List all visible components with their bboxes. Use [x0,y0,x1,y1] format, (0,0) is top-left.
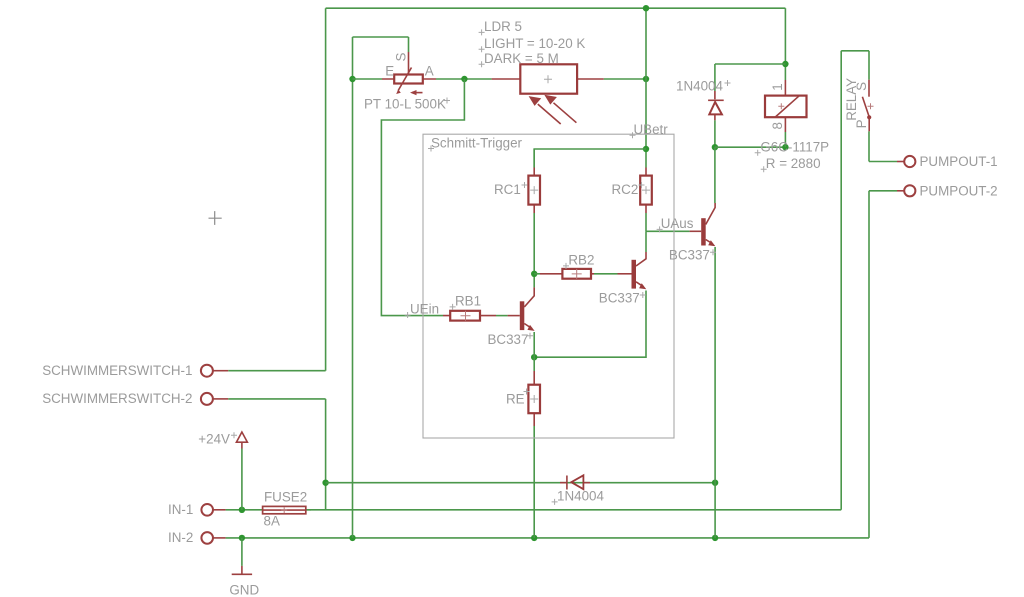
node junction line1-right [712,480,718,486]
wire coil pin8 stub [784,132,786,147]
svg-text:RE: RE [506,392,525,407]
svg-text:RB1: RB1 [455,294,481,309]
wire column2 vertical [645,8,647,167]
wire relay top drop [784,8,786,80]
wire diode bottom stub [714,120,716,147]
wire relay-branch top [841,50,869,52]
relay coil K1 G6C-1117P [755,80,829,172]
wire SCHWIMMERSWITCH-1 horizontal [228,370,325,372]
wire relay switch S feed [868,51,870,80]
wire RE bottom stub [533,426,535,538]
resistor RB2 [540,253,594,279]
wire Q2 collector vertical [645,231,647,252]
wire Q2 emitter down [534,291,646,358]
terminal IN-2 [168,530,226,545]
ground GND [229,566,259,597]
frame Schmitt-Trigger box [423,134,674,438]
relay switch contacts [844,78,874,131]
resistor RB1 [443,294,496,321]
potentiometer R7 PT 10-L 500K [364,52,450,112]
svg-text:FUSE2: FUSE2 [264,490,307,505]
wire GND stub [241,538,243,566]
wire RC2 bottom vertical [645,213,647,231]
node junction diode-top [782,61,788,67]
node junction IN1-24V [239,507,245,513]
svg-text:S: S [394,53,409,62]
svg-text:E: E [385,64,394,79]
diode D2 1N4004 (bottom) [552,475,605,505]
svg-text:IN-1: IN-1 [168,502,193,517]
wire top rail [326,7,786,9]
svg-text:RB2: RB2 [568,253,594,268]
transistor Q1 BC337 [488,287,535,347]
wire UAus horizontal [646,230,690,232]
svg-text:RELAY: RELAY [844,78,859,121]
wire RC1 top stub [533,149,535,168]
wire pot A to LDR [436,78,492,80]
resistor LDR5 [479,19,604,124]
svg-text:G6C-1117P: G6C-1117P [760,139,829,154]
wire coil bottom horizontal [715,146,786,148]
wire pumpout2 vertical [868,191,870,538]
wire pot loop top [353,36,409,38]
wire relay switch P down [868,131,870,161]
terminal SCHWIMMERSWITCH-1 [42,363,228,378]
node junction pot-A [461,76,467,82]
terminal IN-1 [168,502,226,517]
wire IN-1 to fuse [226,509,263,511]
svg-text:BC337: BC337 [669,248,710,263]
wire RB2 left [534,273,540,275]
sheet origin cross [209,211,222,225]
node junction line3-pot [349,535,355,541]
svg-text:BC337: BC337 [599,291,640,306]
terminal PUMPOUT-1 [897,154,998,169]
svg-text:PUMPOUT-2: PUMPOUT-2 [920,183,998,198]
svg-text:SCHWIMMERSWITCH-2: SCHWIMMERSWITCH-2 [42,391,192,406]
svg-text:DARK = 5 M: DARK = 5 M [484,51,559,66]
svg-text:UBetr: UBetr [634,122,669,137]
terminal SCHWIMMERSWITCH-2 [42,391,228,406]
svg-text:R = 2880: R = 2880 [766,156,821,171]
resistor RC2 [612,168,652,214]
resistor RC1 [494,168,540,214]
wire SCHWIMMERSWITCH-2 horizontal [228,398,325,400]
wire diode top horizontal [715,63,786,65]
node junction UBetr [643,146,649,152]
label UEin [405,302,439,318]
svg-text:SCHWIMMERSWITCH-1: SCHWIMMERSWITCH-1 [42,363,192,378]
wire Q3 emitter down [714,247,716,538]
wire RC1 bottom vertical [533,213,535,287]
node junction line3-RE [531,535,537,541]
fuse FUSE2 8A [263,490,311,529]
wire Q3 collector feed [714,147,716,203]
node junction line3-emitter [712,535,718,541]
wire line1 horizontal [326,482,715,484]
svg-text:GND: GND [229,583,259,597]
node junction coil-pin8 [782,144,788,150]
svg-text:+24V: +24V [198,432,230,447]
transistor Q2 BC337 [599,252,647,306]
svg-text:1N4004: 1N4004 [557,489,604,504]
wire Q1 emitter stub [533,332,535,357]
wire pumpout1 horizontal [869,161,897,163]
label UAus [657,216,694,232]
svg-text:IN-2: IN-2 [168,530,193,545]
node junction top-column2 [643,5,649,11]
wire RB1 right to Q1 base [496,315,508,317]
wire +24V vertical [241,449,243,510]
diode D1 1N4004 (flyback) [676,79,731,121]
node junction pot-E [349,76,355,82]
wire pumpout2 horizontal [869,190,897,192]
svg-text:A: A [425,64,434,79]
node junction RB2-left [531,271,537,277]
wire RB2 right to Q2 base [594,273,618,275]
wire UEin drop [381,79,464,316]
wire left outer vertical lower [325,399,327,510]
node junction line1-left [322,480,328,486]
svg-text:PT 10-L 500K: PT 10-L 500K [364,97,446,112]
wire pot S drop [408,37,410,52]
resistor RE [506,371,540,426]
wire left outer vertical upper [325,8,327,371]
wire pot ground vertical [352,37,354,538]
wire LDR right to column2 [604,78,646,80]
svg-text:1: 1 [770,83,785,90]
label Schmitt-Trigger [428,136,523,152]
node junction coil-bottom-left [712,144,718,150]
svg-text:UAus: UAus [661,216,694,231]
wire pot E to gnd column [353,78,383,80]
wire relay-branch left vertical [840,51,842,510]
terminal PUMPOUT-2 [897,183,998,198]
svg-text:1N4004: 1N4004 [676,79,723,94]
transistor Q3 BC337 [669,203,716,263]
wire RE top stub [533,357,535,371]
wire IN-2 to line3 [226,537,242,539]
supply +24V arrow [198,432,247,449]
svg-text:8A: 8A [264,514,280,529]
svg-text:RC1: RC1 [494,182,521,197]
node junction emitters-RE [531,354,537,360]
wire line2 horizontal [306,509,841,511]
wire diode top stub [714,64,716,91]
wire line3 horizontal [242,537,869,539]
svg-text:Schmitt-Trigger: Schmitt-Trigger [431,136,523,151]
node junction IN2-GND [239,535,245,541]
label UBetr [630,122,669,138]
svg-text:8: 8 [770,122,785,129]
wire UBetr rail [534,149,646,168]
node junction LDR-right [643,76,649,82]
svg-text:PUMPOUT-1: PUMPOUT-1 [920,154,998,169]
svg-text:BC337: BC337 [488,332,529,347]
svg-text:RC2: RC2 [612,182,639,197]
svg-text:LDR 5: LDR 5 [484,19,522,34]
svg-text:UEin: UEin [410,302,439,317]
svg-text:LIGHT = 10-20 K: LIGHT = 10-20 K [484,36,585,51]
